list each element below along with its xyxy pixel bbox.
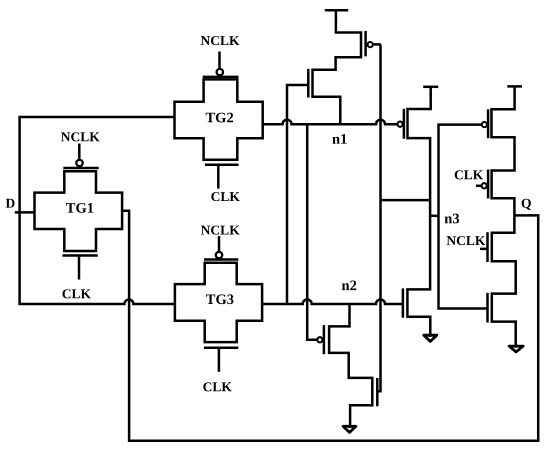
TG3 NCLK label bbox=[201, 223, 241, 238]
transistor M5 source to n2, channel, drain steps to M6 channel, M6 NMOS channel, source to ground G2 bbox=[329, 304, 372, 428]
svg-text:CLK: CLK bbox=[62, 286, 92, 301]
transistor M1 gate bar bbox=[364, 31, 367, 57]
svg-text:CLK: CLK bbox=[203, 379, 233, 394]
wire left loop: top wire from TG2 input, left vertical, bottom-left wire to TG3 with junction gap bbox=[20, 117, 175, 304]
power VDD rail 1 (top-left) bbox=[325, 9, 348, 12]
ground G2 (below M6) bbox=[343, 426, 356, 432]
transistor M5 gate bubble bbox=[317, 337, 322, 342]
svg-text:TG1: TG1 bbox=[66, 201, 94, 217]
transistor M3 gate bubble on n1 bbox=[398, 122, 403, 127]
wire TG1 output stub, vertical to bottom wire, bottom wire, Q feedback vertical, Q wire bbox=[122, 211, 538, 441]
transistor M6 gate bar bbox=[376, 378, 379, 406]
transistor M3 gate bar bbox=[403, 109, 406, 139]
TG1 CLK stub bbox=[78, 256, 81, 280]
wire n3 box: top edge to M7 bubble, left vertical, bottom edge to M10 gate bbox=[439, 125, 488, 309]
TG2 NCLK stub bbox=[218, 52, 221, 68]
TG3 CLK stub bbox=[218, 348, 221, 372]
TG2 bottom gate bar (NMOS side) bbox=[205, 163, 239, 166]
svg-text:NCLK: NCLK bbox=[200, 33, 240, 48]
svg-text:NCLK: NCLK bbox=[446, 233, 486, 248]
transistor M5 gate bar bbox=[323, 325, 326, 354]
svg-text:NCLK: NCLK bbox=[61, 129, 101, 144]
output stack chain: VDD stub, M7 PMOS channel+leads, M8 CLK PMOS, M9 NCLK NMOS, M10 NMOS down to ground G3 bbox=[492, 86, 516, 347]
TG3 CLK label bbox=[203, 379, 233, 394]
transistor M7 gate bar bbox=[487, 109, 490, 138]
svg-text:CLK: CLK bbox=[454, 167, 484, 182]
svg-text:TG2: TG2 bbox=[205, 110, 233, 126]
svg-text:NCLK: NCLK bbox=[201, 223, 241, 238]
TG2 gate bubble bbox=[217, 69, 223, 75]
node n2 wire with junction bumps bbox=[262, 300, 403, 305]
TG1 NCLK stub bbox=[78, 144, 81, 159]
wire D lead bbox=[15, 211, 35, 214]
svg-text:n3: n3 bbox=[444, 211, 459, 227]
node n1 label bbox=[332, 132, 347, 148]
svg-text:TG3: TG3 bbox=[206, 292, 234, 308]
transistor M5 PMOS lower-middle gate lead from n1 vertical with bubble bbox=[307, 124, 317, 340]
transistor M1 gate bubble bbox=[368, 42, 373, 47]
TG3 NCLK stub bbox=[218, 236, 221, 251]
transistor M9 gate bar bbox=[486, 232, 489, 262]
TG3 gate bubble bbox=[216, 252, 222, 258]
TG2 CLK stub bbox=[217, 165, 220, 189]
transistor M2 gate lead and vertical through n1 to n2 bbox=[287, 85, 308, 304]
TG1 bottom gate bar (NMOS side) bbox=[63, 254, 98, 257]
TG3 top gate bar (PMOS side) bbox=[204, 258, 238, 261]
power VDD rail 2 (middle) bbox=[423, 86, 438, 89]
TG1 gate bubble bbox=[76, 160, 82, 166]
TG1 CLK label bbox=[62, 286, 92, 301]
transistor M9 gate stub bbox=[480, 248, 488, 251]
wire connector n3 column to gate vertical bbox=[381, 199, 431, 202]
transmission gate TG3 cross bbox=[175, 263, 262, 342]
transmission gate TG2 cross bbox=[175, 79, 263, 159]
TG2 NCLK label bbox=[200, 33, 240, 48]
transistor M1 gate lead to vertical bbox=[374, 43, 381, 46]
ground G1 (below M4) bbox=[424, 335, 437, 341]
transmission gate TG1 cross bbox=[35, 171, 123, 251]
transistor M1 PMOS top-left: VDD stub, source lead, channel, drain steps to M2 channel, M2 NMOS channel and source to n1 bbox=[313, 10, 362, 124]
node Q label bbox=[521, 196, 532, 211]
svg-text:CLK: CLK bbox=[211, 189, 241, 204]
transistor M8 gate bubble bbox=[482, 183, 487, 188]
wire long vertical from M1 gate through n1 and n2 to M6 gate bbox=[377, 44, 380, 391]
svg-text:D: D bbox=[5, 196, 15, 211]
node n2 label bbox=[341, 278, 356, 294]
transistor M8 gate stub bbox=[476, 185, 481, 188]
transistor M9 NCLK label bbox=[446, 233, 486, 248]
svg-text:n1: n1 bbox=[332, 132, 347, 148]
wire rung connecting drain column to n3 box bbox=[430, 215, 438, 218]
power VDD rail 3 (right) bbox=[507, 85, 522, 88]
TG1 NCLK label bbox=[61, 129, 101, 144]
TG3 bottom gate bar (NMOS side) bbox=[204, 346, 238, 349]
ground G3 (below M10) bbox=[509, 346, 523, 352]
node n3 label bbox=[444, 211, 459, 227]
transistor M2 NMOS gate bar bbox=[307, 69, 310, 98]
node D label bbox=[5, 196, 15, 211]
transistor M7 gate bubble bbox=[482, 122, 487, 127]
transistor M10 gate bar bbox=[486, 293, 489, 323]
transistor M4 NMOS gate bar bbox=[402, 288, 405, 317]
TG2 CLK label bbox=[211, 189, 241, 204]
svg-text:Q: Q bbox=[521, 196, 532, 211]
transistor M3 PMOS mid: VDD stub, source, channel, drain vertical down to M4, M4 NMOS channel, drain lead to ground bbox=[407, 87, 430, 337]
TG2 top gate bar (PMOS side) bbox=[203, 76, 239, 79]
transistor M8 gate bar bbox=[487, 170, 490, 199]
svg-text:n2: n2 bbox=[341, 278, 356, 294]
node n1 wire with junction bumps bbox=[263, 120, 398, 124]
TG1 top gate bar (PMOS side) bbox=[63, 167, 98, 170]
transistor M8 CLK label bbox=[454, 167, 484, 182]
